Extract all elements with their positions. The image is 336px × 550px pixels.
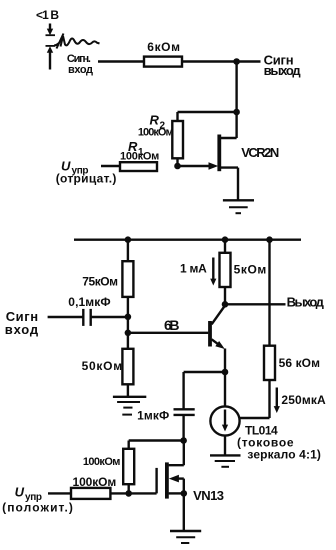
node output — [233, 58, 240, 65]
svg-text:(отрицат.): (отрицат.) — [56, 172, 117, 186]
wire output node down — [235, 62, 237, 113]
wire 6кОм to output node — [182, 60, 261, 62]
node rail 5кОм — [222, 236, 229, 243]
wire gate — [129, 492, 157, 494]
supply rail (bottom circuit) — [74, 238, 301, 240]
svg-text:Выход: Выход — [287, 295, 325, 310]
capacitor 1мкФ — [174, 372, 195, 441]
wire R2 bottom — [176, 158, 178, 166]
resistor 100кОм vertical — [127, 441, 129, 449]
svg-text:VN13: VN13 — [193, 488, 224, 503]
node base junction — [125, 330, 132, 337]
annotation label <1 В — [36, 8, 59, 22]
node emitter — [222, 369, 229, 376]
ground (50кОм) — [113, 397, 146, 408]
svg-text:6кОм: 6кОм — [147, 40, 180, 54]
wire Выход — [225, 303, 286, 305]
svg-text:100кОм: 100кОм — [73, 475, 117, 489]
svg-text:U: U — [15, 485, 25, 500]
svg-text:100кОм: 100кОм — [120, 151, 159, 163]
transistor VCR2N (JFET) — [219, 112, 238, 201]
label Сигн выход — [264, 53, 302, 79]
waveform squiggle — [54, 34, 100, 49]
resistor 5кОм — [224, 240, 226, 253]
svg-text:R: R — [150, 113, 160, 128]
node drain VN13 — [180, 437, 187, 444]
svg-text:100кОм: 100кОм — [83, 456, 121, 468]
resistor R2 100кОм — [172, 121, 183, 158]
svg-text:1 мА: 1 мА — [180, 262, 207, 276]
svg-text:5кОм: 5кОм — [234, 263, 267, 277]
annotation 250мкА arrow — [276, 388, 278, 408]
annotation 1 мА arrow — [180, 262, 207, 276]
svg-text:0,1мкФ: 0,1мкФ — [68, 295, 110, 309]
wire Uупр to R1 — [101, 165, 120, 167]
svg-text:6В: 6В — [164, 317, 180, 333]
resistor 6кОм — [144, 57, 182, 67]
label Uупр (отрицат.) — [56, 159, 117, 186]
label Uупр (положит.) — [2, 485, 73, 515]
ground (mirror) — [210, 455, 241, 466]
polarity dash before 1мкФ — [122, 414, 132, 416]
ground (top circuit) — [223, 200, 254, 213]
transistor VN13 (MOSFET) — [157, 441, 184, 531]
wire emitter to capacitor — [184, 371, 225, 373]
wire input to 6кОм — [98, 60, 144, 62]
svg-text:выход: выход — [264, 63, 302, 78]
svg-text:1мкФ: 1мкФ — [137, 409, 169, 423]
node R2 top — [233, 109, 240, 116]
capacitor 0,1мкФ — [48, 309, 128, 326]
node cap junction — [125, 314, 132, 321]
node gate VN13 — [125, 490, 132, 497]
label Сигн. вход (top input) — [67, 53, 93, 76]
svg-text:(положит.): (положит.) — [2, 501, 73, 515]
wire base, label 6 В — [128, 332, 208, 334]
wire gate with arrow — [178, 165, 212, 167]
amplitude marker arrows — [46, 24, 56, 70]
resistor 100кОм horizontal — [48, 492, 71, 494]
wire rail to 56кОм — [268, 240, 270, 346]
transistor NPN — [210, 306, 225, 373]
svg-text:вход: вход — [5, 322, 39, 337]
svg-text:250мкА: 250мкА — [281, 393, 326, 407]
wire drain node to 100кОм — [129, 439, 184, 441]
svg-text:75кОм: 75кОм — [82, 274, 118, 288]
node rail 75кОм — [125, 236, 132, 243]
svg-text:вход: вход — [68, 64, 93, 76]
label Сигн вход (bottom input) — [5, 309, 39, 337]
svg-text:100кОм: 100кОм — [138, 127, 174, 139]
svg-text:<1 В: <1 В — [36, 8, 59, 22]
ground (VN13) — [170, 531, 201, 543]
resistor 75кОм — [127, 240, 129, 262]
wire node to R2 — [178, 112, 237, 121]
resistor 50кОм — [122, 349, 133, 385]
node rail 56кОм — [266, 236, 273, 243]
resistor R1 100кОм — [120, 162, 157, 171]
svg-text:50кОм: 50кОм — [82, 359, 123, 373]
node gate — [174, 163, 181, 170]
svg-text:56 кОм: 56 кОм — [279, 356, 321, 370]
node collector — [222, 301, 229, 308]
svg-text:зеркало 4:1): зеркало 4:1) — [247, 448, 321, 462]
resistor 56кОм — [264, 346, 275, 380]
svg-text:VCR2N: VCR2N — [241, 145, 279, 160]
current mirror TL014 — [224, 372, 226, 406]
